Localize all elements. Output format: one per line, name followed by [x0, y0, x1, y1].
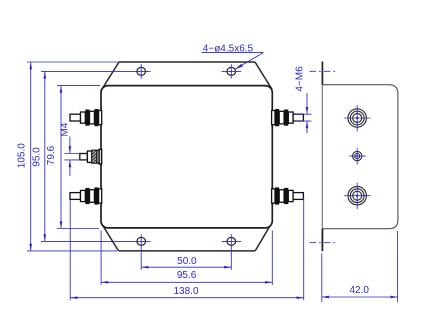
svg-text:105.0: 105.0: [16, 143, 27, 168]
svg-text:42.0: 42.0: [349, 285, 369, 296]
svg-text:4−M6: 4−M6: [295, 66, 306, 92]
svg-text:79.6: 79.6: [46, 145, 57, 165]
svg-text:138.0: 138.0: [173, 286, 198, 297]
svg-text:95.6: 95.6: [177, 270, 197, 281]
svg-text:M4: M4: [59, 122, 70, 136]
svg-text:50.0: 50.0: [177, 256, 197, 267]
svg-text:95.0: 95.0: [31, 147, 42, 167]
